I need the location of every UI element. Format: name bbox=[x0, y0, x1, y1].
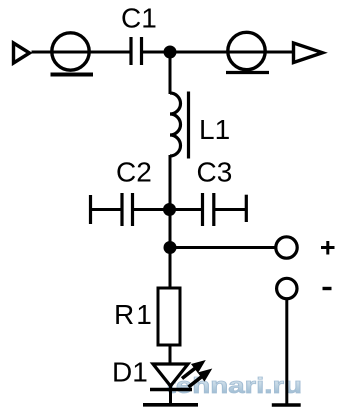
junction node top bbox=[164, 46, 177, 59]
open terminal bar (right end of C3 branch) bbox=[245, 195, 248, 222]
LED D1 emission arrow 2 bbox=[189, 370, 212, 388]
inductor L1 core line bbox=[187, 92, 190, 159]
input arrow (left) bbox=[14, 43, 30, 63]
open terminal bar (left end of C2 branch) bbox=[89, 195, 92, 224]
resistor R1 bbox=[158, 288, 180, 345]
capacitor C3 plate right bbox=[212, 193, 215, 226]
socket connector XW1 (left circle) bbox=[52, 33, 89, 70]
minus terminal circle bbox=[277, 278, 297, 298]
wire: input to C1 bbox=[32, 51, 130, 54]
wire: L1 down to capacitor row bbox=[169, 155, 172, 210]
socket XW1 base bar bbox=[51, 73, 94, 77]
wire: center junction to C3 bbox=[170, 208, 201, 211]
svg-text:D1: D1 bbox=[112, 357, 148, 388]
junction node supply bbox=[164, 241, 177, 254]
wire: C1 to output arrow bbox=[143, 51, 292, 54]
svg-text:C2: C2 bbox=[116, 157, 152, 188]
LED D1 cathode bar bbox=[150, 388, 192, 391]
socket connector XW2 (right circle) bbox=[228, 32, 265, 69]
wire: minus terminal down to ground bbox=[285, 299, 288, 406]
ground bar (left, under D1) bbox=[143, 403, 198, 407]
svg-text:C1: C1 bbox=[121, 3, 157, 34]
capacitor C3 plate left bbox=[201, 193, 204, 226]
LED D1 triangle (anode) bbox=[153, 364, 188, 386]
ground bar (right) bbox=[272, 403, 301, 406]
wire: D1 to ground bbox=[169, 386, 172, 404]
svg-text:R1: R1 bbox=[114, 299, 154, 330]
inductor L1 coil bbox=[170, 93, 181, 156]
wire: C3 to right terminal bbox=[215, 208, 246, 211]
label - bbox=[323, 287, 332, 290]
wire: terminal to C2 bbox=[91, 208, 122, 211]
wire: C2 to center junction bbox=[134, 208, 170, 211]
capacitor C1 plate right bbox=[140, 37, 143, 65]
svg-text:L1: L1 bbox=[199, 114, 230, 145]
plus terminal circle bbox=[276, 237, 297, 258]
wire: top node down to L1 bbox=[169, 52, 172, 94]
output arrow (right) bbox=[294, 43, 323, 63]
wire: capacitor row to supply node bbox=[169, 210, 172, 248]
wire: supply node to plus terminal bbox=[170, 246, 275, 249]
label + bbox=[321, 241, 335, 255]
capacitor C2 plate left bbox=[120, 193, 123, 226]
socket XW2 base bar bbox=[226, 71, 269, 74]
junction node capacitor row bbox=[163, 203, 176, 216]
capacitor C1 plate left bbox=[129, 37, 132, 65]
wire: R1 to D1 bbox=[169, 345, 172, 365]
svg-text:C3: C3 bbox=[197, 157, 233, 188]
LED D1 emission arrow 1 bbox=[182, 361, 205, 379]
wire: supply node down to R1 bbox=[169, 248, 172, 290]
capacitor C2 plate right bbox=[131, 193, 134, 226]
